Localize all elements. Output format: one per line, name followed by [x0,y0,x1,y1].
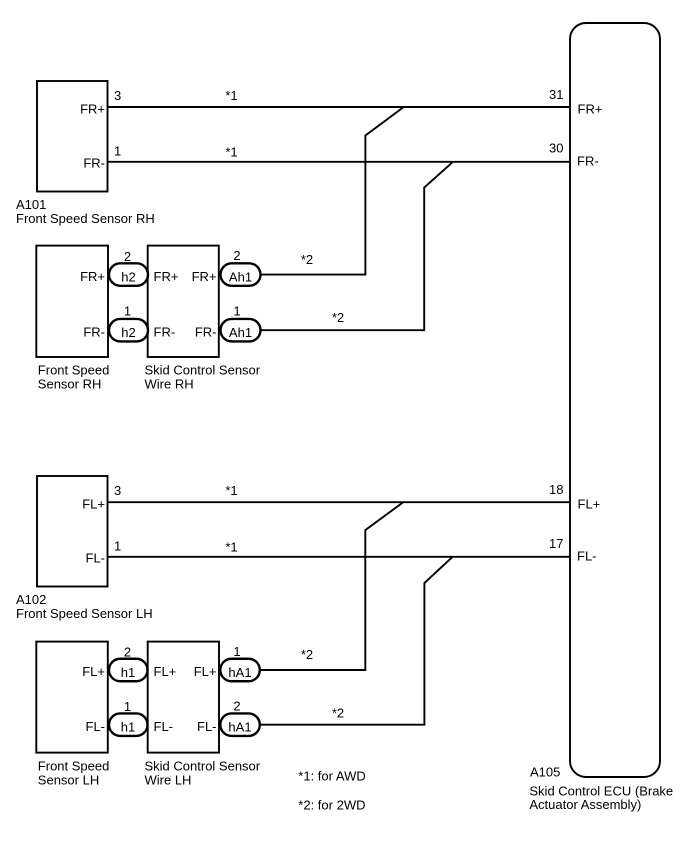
svg-text:1: 1 [233,644,240,659]
svg-text:Sensor RH: Sensor RH [38,377,102,392]
svg-text:Wire LH: Wire LH [145,773,192,788]
svg-text:*1: *1 [225,483,237,498]
svg-text:FL-: FL- [197,719,217,734]
svg-text:Wire RH: Wire RH [145,377,194,392]
connector pill Ah1 pin1 FR- [221,304,261,342]
connector pill h1 pin2 FL+ [109,644,148,681]
svg-text:Skid Control Sensor: Skid Control Sensor [145,363,261,378]
svg-text:FL-: FL- [577,549,597,564]
svg-text:Ah1: Ah1 [229,270,252,285]
label A102 [16,592,153,621]
svg-text:*2: *2 [301,252,313,267]
svg-text:FR+: FR+ [578,101,603,116]
svg-text:h1: h1 [121,665,135,680]
svg-text:*2: *2 [332,310,344,325]
svg-text:Front Speed: Front Speed [38,363,110,378]
svg-text:FL-: FL- [86,719,106,734]
svg-text:FL+: FL+ [578,497,601,512]
svg-text:FR+: FR+ [154,269,179,284]
connector pill h1 pin1 FL- [109,699,148,736]
svg-text:2: 2 [233,248,240,263]
svg-text:2: 2 [124,249,131,264]
svg-text:3: 3 [114,483,121,498]
wire hA1 pin2 to FL- wire junction [260,557,453,725]
svg-text:FR-: FR- [195,324,217,339]
svg-text:1: 1 [233,304,240,319]
svg-text:A101: A101 [16,197,46,212]
svg-text:FL+: FL+ [154,664,177,679]
connector pill h2 pin2 FR+ [109,249,148,286]
label Front Speed Sensor RH [38,363,110,392]
connector Front Speed Sensor RH box [36,246,108,357]
svg-text:FL-: FL- [86,551,106,566]
svg-text:*2: for 2WD: *2: for 2WD [298,798,365,813]
connector pill hA1 pin1 FL+ [220,644,259,681]
connector Skid Control Sensor Wire RH box [148,246,219,357]
wire Ah1 pin2 to FR+ wire junction [261,108,404,275]
wire FL- A102 pin1 to ECU pin17 [108,556,571,558]
svg-text:A102: A102 [16,592,46,607]
svg-text:Sensor LH: Sensor LH [38,773,99,788]
svg-text:FR+: FR+ [80,269,105,284]
label A101 [16,197,155,226]
svg-text:FR-: FR- [83,156,105,171]
svg-text:3: 3 [114,88,121,103]
label A105 [529,765,673,812]
svg-text:2: 2 [124,644,131,659]
ECU A105 box [570,23,660,777]
connector pill Ah1 pin2 FR+ [221,248,261,286]
label Skid Control Sensor Wire LH [145,759,261,788]
svg-text:hA1: hA1 [228,720,251,735]
svg-text:FL+: FL+ [82,496,105,511]
svg-text:FR-: FR- [577,153,599,168]
svg-text:*1: *1 [225,540,237,555]
connector pill h2 pin1 FR- [109,304,148,342]
svg-text:hA1: hA1 [228,665,251,680]
svg-text:h2: h2 [121,270,135,285]
svg-text:18: 18 [549,482,563,497]
svg-text:1: 1 [124,699,131,714]
svg-text:Front Speed Sensor RH: Front Speed Sensor RH [16,211,155,226]
svg-text:h1: h1 [121,720,135,735]
connector pill hA1 pin2 FL- [220,699,259,736]
svg-text:17: 17 [549,536,563,551]
svg-text:*1: *1 [225,145,237,160]
connector Skid Control Sensor Wire LH box [148,642,219,753]
svg-text:31: 31 [549,87,563,102]
svg-text:1: 1 [114,144,121,159]
svg-text:2: 2 [233,699,240,714]
svg-text:*1: for AWD: *1: for AWD [298,768,365,783]
svg-text:FR+: FR+ [192,269,217,284]
svg-text:1: 1 [124,304,131,319]
wire FL+ A102 pin3 to ECU pin18 [108,501,571,503]
svg-text:Ah1: Ah1 [229,325,252,340]
svg-text:Front Speed Sensor LH: Front Speed Sensor LH [16,606,153,621]
svg-text:FR-: FR- [83,324,105,339]
svg-text:*1: *1 [225,88,237,103]
connector A101 box [37,81,108,192]
svg-text:FL+: FL+ [82,664,105,679]
svg-text:A105: A105 [530,765,560,780]
svg-text:FL+: FL+ [194,664,217,679]
connector Front Speed Sensor LH box [36,642,108,753]
svg-text:h2: h2 [121,325,135,340]
svg-text:1: 1 [114,539,121,554]
label Front Speed Sensor LH [38,759,110,788]
label Skid Control Sensor Wire RH [145,363,261,392]
svg-text:Actuator Assembly): Actuator Assembly) [529,797,641,812]
connector A102 box [37,476,108,587]
svg-text:Skid Control Sensor: Skid Control Sensor [145,759,261,774]
svg-text:FR-: FR- [154,324,176,339]
svg-text:FL-: FL- [154,719,174,734]
wire Ah1 pin1 to FR- wire junction [261,162,454,330]
wire FR+ A101 pin3 to ECU pin31 [108,106,571,108]
svg-text:FR+: FR+ [80,101,105,116]
svg-text:30: 30 [549,141,563,156]
svg-text:*2: *2 [332,705,344,720]
svg-text:*2: *2 [301,647,313,662]
wire hA1 pin1 to FL+ wire junction [260,502,403,670]
wire FR- A101 pin1 to ECU pin30 [108,161,571,163]
svg-text:Front Speed: Front Speed [38,759,110,774]
